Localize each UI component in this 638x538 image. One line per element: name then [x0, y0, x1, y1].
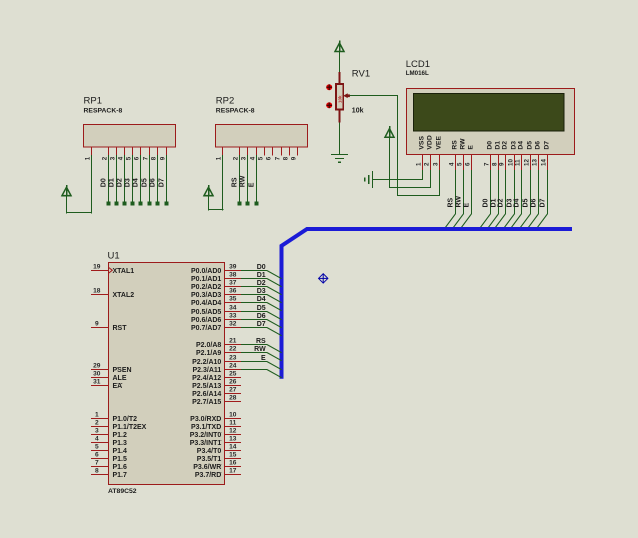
svg-text:P3.6/WR: P3.6/WR: [193, 464, 221, 471]
svg-text:5: 5: [258, 156, 265, 160]
svg-text:10: 10: [229, 411, 237, 418]
svg-text:P0.0/AD0: P0.0/AD0: [191, 268, 221, 275]
svg-text:P3.2/INT0: P3.2/INT0: [190, 432, 222, 439]
svg-text:35: 35: [229, 295, 237, 302]
svg-text:RS: RS: [231, 177, 238, 187]
svg-text:2: 2: [102, 156, 109, 160]
svg-text:RS: RS: [256, 338, 266, 345]
svg-text:D0: D0: [100, 178, 107, 187]
svg-text:9: 9: [95, 321, 99, 328]
svg-text:XTAL1: XTAL1: [113, 268, 135, 275]
svg-text:P2.5/A13: P2.5/A13: [192, 383, 221, 390]
svg-text:LM016L: LM016L: [406, 70, 429, 77]
svg-text:7: 7: [95, 460, 99, 467]
svg-text:P1.4: P1.4: [113, 448, 128, 455]
svg-text:P0.2/AD2: P0.2/AD2: [191, 284, 221, 291]
svg-text:34: 34: [229, 304, 237, 311]
svg-text:D4: D4: [132, 178, 139, 187]
svg-text:21: 21: [229, 337, 237, 344]
svg-text:29: 29: [93, 363, 101, 370]
svg-text:RW: RW: [254, 346, 266, 353]
svg-text:P0.7/AD7: P0.7/AD7: [191, 325, 221, 332]
svg-text:RW: RW: [460, 138, 467, 150]
svg-text:D5: D5: [141, 178, 148, 187]
svg-text:8: 8: [492, 162, 499, 166]
svg-text:1: 1: [85, 156, 92, 160]
svg-text:D1: D1: [495, 141, 502, 150]
svg-text:P0.1/AD1: P0.1/AD1: [191, 276, 221, 283]
svg-text:RESPACK-8: RESPACK-8: [216, 108, 255, 115]
svg-text:D3: D3: [257, 288, 266, 295]
svg-text:VSS: VSS: [419, 136, 426, 150]
svg-text:6: 6: [134, 156, 141, 160]
svg-text:EA: EA: [113, 383, 123, 390]
svg-text:8: 8: [151, 156, 158, 160]
svg-text:D1: D1: [257, 272, 266, 279]
svg-text:D3: D3: [507, 198, 514, 207]
svg-text:6: 6: [465, 162, 472, 166]
svg-text:2: 2: [95, 420, 99, 427]
svg-text:D4: D4: [257, 296, 266, 303]
svg-text:27: 27: [229, 386, 237, 393]
svg-text:D4: D4: [518, 141, 525, 150]
svg-text:10: 10: [508, 159, 515, 166]
svg-text:12: 12: [229, 427, 237, 434]
svg-text:15: 15: [229, 451, 237, 458]
svg-text:7: 7: [484, 162, 491, 166]
svg-text:D6: D6: [257, 313, 266, 320]
svg-text:25: 25: [229, 370, 237, 377]
svg-text:7: 7: [143, 156, 150, 160]
svg-text:3: 3: [433, 162, 440, 166]
svg-text:22: 22: [229, 345, 237, 352]
svg-text:14: 14: [229, 443, 237, 450]
svg-text:39: 39: [229, 263, 237, 270]
svg-text:10k: 10k: [352, 107, 364, 114]
svg-text:E: E: [468, 145, 475, 150]
svg-text:P1.1/T2EX: P1.1/T2EX: [113, 424, 147, 431]
svg-text:13: 13: [229, 435, 237, 442]
svg-text:D2: D2: [502, 141, 509, 150]
svg-text:P1.7: P1.7: [113, 472, 128, 479]
svg-text:D5: D5: [527, 141, 534, 150]
svg-text:XTAL2: XTAL2: [113, 292, 135, 299]
svg-text:P3.3/INT1: P3.3/INT1: [190, 440, 222, 447]
svg-text:3: 3: [241, 156, 248, 160]
svg-text:D3: D3: [511, 141, 518, 150]
svg-text:D0: D0: [487, 141, 494, 150]
svg-text:D7: D7: [257, 321, 266, 328]
svg-text:VDD: VDD: [427, 135, 434, 149]
svg-text:P1.2: P1.2: [113, 432, 128, 439]
svg-text:1: 1: [95, 412, 99, 419]
svg-text:D7: D7: [544, 141, 551, 150]
svg-text:38: 38: [229, 271, 237, 278]
svg-text:P3.4/T0: P3.4/T0: [197, 448, 222, 455]
svg-text:RV1: RV1: [352, 69, 370, 80]
svg-text:RW: RW: [456, 196, 463, 208]
svg-text:P2.3/A11: P2.3/A11: [192, 367, 221, 374]
svg-text:D5: D5: [257, 305, 266, 312]
svg-text:D6: D6: [149, 178, 156, 187]
svg-text:P2.2/A10: P2.2/A10: [192, 359, 221, 366]
svg-text:D1: D1: [108, 178, 115, 187]
svg-text:P3.1/TXD: P3.1/TXD: [191, 424, 221, 431]
svg-text:9: 9: [499, 162, 506, 166]
svg-text:RP1: RP1: [84, 96, 102, 107]
svg-text:D5: D5: [523, 198, 530, 207]
svg-text:33: 33: [229, 312, 237, 319]
svg-text:P1.0/T2: P1.0/T2: [113, 416, 138, 423]
svg-text:P3.0/RXD: P3.0/RXD: [190, 416, 221, 423]
svg-text:3: 3: [95, 428, 99, 435]
svg-text:4: 4: [118, 156, 125, 160]
svg-text:P2.0/A8: P2.0/A8: [196, 342, 221, 349]
svg-text:U1: U1: [108, 251, 120, 262]
svg-text:AT89C52: AT89C52: [108, 488, 137, 495]
svg-text:P0.5/AD5: P0.5/AD5: [191, 309, 221, 316]
svg-text:4: 4: [449, 162, 456, 166]
svg-text:1: 1: [416, 162, 423, 166]
svg-text:11: 11: [515, 159, 522, 166]
svg-text:P2.4/A12: P2.4/A12: [192, 375, 221, 382]
svg-text:16: 16: [229, 459, 237, 466]
svg-text:P2.6/A14: P2.6/A14: [192, 391, 221, 398]
svg-text:RW: RW: [239, 175, 246, 187]
svg-text:23: 23: [229, 354, 237, 361]
svg-text:31: 31: [93, 379, 101, 386]
svg-text:8: 8: [283, 156, 290, 160]
svg-text:D2: D2: [116, 178, 123, 187]
svg-text:8: 8: [95, 468, 99, 475]
svg-text:2: 2: [424, 162, 431, 166]
svg-text:RESPACK-8: RESPACK-8: [84, 108, 123, 115]
svg-text:9: 9: [160, 156, 167, 160]
svg-text:24: 24: [229, 362, 237, 369]
svg-text:26: 26: [229, 378, 237, 385]
svg-text:P3.5/T1: P3.5/T1: [197, 456, 222, 463]
svg-text:7: 7: [275, 156, 282, 160]
svg-text:D2: D2: [498, 198, 505, 207]
svg-text:30: 30: [93, 371, 101, 378]
svg-text:12: 12: [524, 159, 531, 166]
svg-text:P1.6: P1.6: [113, 464, 128, 471]
svg-text:17: 17: [229, 467, 237, 474]
svg-text:D0: D0: [257, 264, 266, 271]
svg-text:RS: RS: [448, 197, 455, 207]
svg-text:D7: D7: [540, 198, 547, 207]
svg-text:5: 5: [457, 162, 464, 166]
svg-text:P2.1/A9: P2.1/A9: [196, 350, 221, 357]
svg-text:P1.3: P1.3: [113, 440, 128, 447]
svg-text:1: 1: [216, 156, 223, 160]
svg-text:RST: RST: [113, 325, 128, 332]
svg-text:11: 11: [229, 419, 236, 426]
svg-text:E: E: [261, 355, 266, 362]
svg-text:RP2: RP2: [216, 96, 234, 107]
svg-text:LCD1: LCD1: [406, 59, 430, 70]
svg-text:P3.7/RD: P3.7/RD: [195, 472, 221, 479]
svg-text:D7: D7: [158, 178, 165, 187]
svg-text:13: 13: [532, 159, 539, 166]
svg-text:RS: RS: [452, 140, 459, 150]
svg-text:36: 36: [229, 287, 237, 294]
svg-text:6: 6: [95, 452, 99, 459]
svg-text:D6: D6: [531, 198, 538, 207]
svg-text:6: 6: [266, 156, 273, 160]
svg-text:P0.4/AD4: P0.4/AD4: [191, 300, 221, 307]
svg-text:D3: D3: [124, 178, 131, 187]
svg-text:VEE: VEE: [436, 136, 443, 150]
svg-text:P2.7/A15: P2.7/A15: [192, 399, 221, 406]
svg-text:9: 9: [291, 156, 298, 160]
svg-text:PSEN: PSEN: [113, 367, 132, 374]
svg-text:3: 3: [110, 156, 117, 160]
svg-text:14: 14: [541, 159, 548, 166]
svg-text:28: 28: [229, 394, 237, 401]
svg-text:32: 32: [229, 320, 237, 327]
svg-text:E: E: [248, 182, 255, 187]
svg-text:D4: D4: [514, 198, 521, 207]
svg-text:P0.3/AD3: P0.3/AD3: [191, 292, 221, 299]
svg-text:P0.6/AD6: P0.6/AD6: [191, 317, 221, 324]
svg-text:D2: D2: [257, 280, 266, 287]
svg-text:ALE: ALE: [113, 375, 127, 382]
svg-text:37: 37: [229, 279, 237, 286]
svg-text:10k: 10k: [338, 95, 343, 103]
svg-text:E: E: [464, 203, 471, 208]
svg-text:D0: D0: [483, 198, 490, 207]
svg-text:D6: D6: [535, 141, 542, 150]
svg-text:2: 2: [233, 156, 240, 160]
svg-text:P1.5: P1.5: [113, 456, 128, 463]
svg-text:5: 5: [126, 156, 133, 160]
svg-text:18: 18: [93, 288, 101, 295]
svg-text:4: 4: [95, 436, 99, 443]
svg-text:5: 5: [95, 444, 99, 451]
svg-text:19: 19: [93, 264, 101, 271]
svg-text:4: 4: [250, 156, 257, 160]
svg-text:D1: D1: [491, 198, 498, 207]
